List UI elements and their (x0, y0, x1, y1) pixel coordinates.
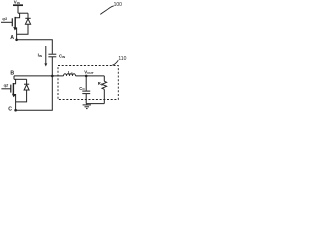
transistor Q2 source arrow (12, 94, 16, 98)
wire Q2 drain T-branch (14, 78, 27, 80)
ground bar 1 (83, 104, 91, 106)
current arrow Iin shaft (45, 46, 47, 63)
wire D2 anode join (16, 90, 27, 102)
diode D2 cathode bar (24, 83, 29, 85)
svg-text:CO: CO (79, 86, 85, 91)
label Co (79, 86, 85, 91)
svg-text:100: 100 (114, 2, 123, 8)
capacitor Co top plate (82, 90, 90, 92)
svg-text:C: C (8, 107, 12, 113)
svg-text:RO: RO (98, 81, 104, 86)
capacitor Co lead top (85, 76, 87, 91)
transistor Q1 source lead (15, 28, 16, 40)
capacitor Co bottom plate (82, 93, 90, 95)
svg-text:B: B (10, 70, 14, 76)
label Cin (59, 53, 65, 58)
capacitor Co lead bottom (85, 94, 87, 104)
current arrow Iin head (44, 63, 47, 66)
node A label (10, 35, 14, 41)
resistor Ro bottom lead (103, 89, 105, 103)
junction dot Cin/B (51, 75, 54, 78)
transistor Q2 channel bar (12, 83, 14, 95)
svg-text:q1: q1 (2, 16, 7, 21)
transistor Q2 drain lead (13, 79, 15, 84)
transistor Q1 gate bar (11, 18, 13, 26)
label Lo (68, 70, 74, 75)
wire Cin bottom to node C corner (16, 57, 53, 110)
label Q1 (2, 16, 7, 21)
capacitor Cin bottom plate (48, 56, 56, 58)
wire Q2 gate lead (1, 88, 10, 90)
diode D1 triangle (25, 19, 30, 24)
label 110 (118, 56, 126, 62)
wire bottom rail (86, 103, 104, 105)
capacitor Cin top plate (48, 53, 56, 55)
transistor Q2 gate bar (10, 85, 12, 93)
node Vout label (84, 70, 93, 75)
node C dot (14, 109, 17, 112)
ground bar 2 (85, 106, 90, 108)
diode D2 cathode lead (26, 79, 28, 84)
ground bar 3 (86, 108, 88, 110)
svg-text:110: 110 (118, 56, 126, 62)
leader 100 (100, 6, 114, 15)
net Vin label (14, 0, 20, 5)
transistor Q1 source arrow (13, 27, 17, 31)
svg-text:q2: q2 (4, 82, 9, 87)
transistor Q1 drain lead (15, 13, 19, 18)
junction dot Vout (85, 75, 88, 78)
diode D1 cathode lead (27, 13, 29, 18)
diode D2 triangle (24, 85, 29, 90)
resistor Ro top lead (103, 76, 105, 81)
diode D1 cathode bar (25, 17, 30, 19)
wire Q1 gate lead (1, 21, 12, 23)
inductor Lo coil (64, 74, 76, 76)
leader 110 (112, 60, 118, 65)
power rail Vin bar (13, 4, 23, 6)
transistor Q1 channel bar (14, 17, 16, 28)
transistor Q2 source lead (13, 95, 15, 111)
dashed block 110 outline (58, 66, 118, 100)
label Iin (38, 53, 42, 58)
label Q2 (4, 82, 9, 87)
label Ro (98, 81, 104, 86)
wire node B horizontal (14, 75, 64, 77)
svg-text:VOUT: VOUT (84, 70, 93, 75)
node B label (10, 70, 14, 76)
svg-text:VIN: VIN (14, 0, 20, 5)
svg-text:CIN: CIN (59, 53, 65, 58)
wire Lo to Ro corner (76, 75, 105, 77)
wire drain T-branch (18, 12, 28, 14)
svg-text:LO: LO (68, 70, 74, 75)
svg-text:IIN: IIN (38, 53, 42, 58)
wire Vin stem (17, 5, 19, 13)
wire D1 anode join (17, 24, 28, 34)
ground lead (86, 104, 88, 105)
label 100 (114, 2, 123, 8)
resistor Ro zigzag (102, 81, 107, 89)
node A dot (15, 39, 18, 42)
svg-text:A: A (10, 35, 14, 41)
wire node A to Cin (17, 40, 53, 54)
wire node B corner down (13, 76, 15, 79)
node C label (8, 107, 12, 113)
